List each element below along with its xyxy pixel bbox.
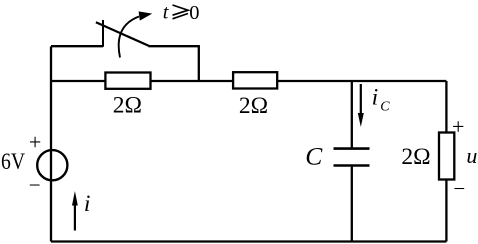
label 2 ohm under R1 [113, 93, 142, 119]
wire: right vertical top segment [445, 81, 447, 133]
svg-text:2Ω: 2Ω [113, 93, 142, 119]
label iC [372, 85, 391, 115]
switch motion arc arrow [119, 11, 153, 57]
wire: left vertical (node A column) [50, 46, 52, 241]
wire: right vertical bottom segment [445, 180, 447, 242]
svg-text:2Ω: 2Ω [401, 144, 430, 170]
svg-text:0: 0 [189, 2, 199, 24]
wire: capacitor branch top stub [351, 81, 353, 148]
label - (source polarity) [29, 173, 41, 197]
svg-text:+: + [29, 129, 41, 154]
svg-text:C: C [380, 100, 390, 115]
wire: main top wire, R1 to R2 [151, 80, 234, 82]
switch S blade [96, 22, 150, 46]
label + (u polarity) [452, 114, 464, 139]
label - (u polarity) [453, 177, 465, 201]
capacitor C top plate [334, 147, 370, 150]
label C [305, 142, 323, 171]
label 2 ohm under R2 [239, 93, 268, 119]
voltage source V1 (6V) circle [37, 150, 67, 180]
svg-text:u: u [466, 143, 477, 168]
svg-text:−: − [29, 173, 41, 197]
label i [84, 191, 91, 217]
svg-text:−: − [453, 177, 465, 201]
svg-text:i: i [84, 191, 91, 217]
wire: capacitor branch bottom stub [351, 167, 353, 242]
label u [466, 143, 477, 168]
wire: switch branch left horizontal [51, 45, 103, 47]
label + (source polarity) [29, 129, 41, 154]
svg-text:2Ω: 2Ω [239, 93, 268, 119]
svg-text:6V: 6V [1, 149, 25, 175]
switch S fixed contact tick [102, 20, 104, 47]
resistor R3 (2 ohm load) [439, 133, 454, 180]
current arrow iC [358, 84, 364, 127]
wire: main top wire, R2 to top-right corner [277, 80, 446, 82]
label 2 ohm left of R3 [401, 144, 430, 170]
resistor R1 (2 ohm, shorted by switch) [105, 73, 150, 89]
label 6V [1, 149, 25, 175]
svg-text:i: i [372, 85, 379, 111]
capacitor C bottom plate [334, 164, 370, 167]
svg-text:C: C [305, 142, 323, 171]
svg-text:+: + [452, 114, 464, 139]
current arrow i [72, 191, 78, 231]
wire: bottom return wire [51, 240, 446, 242]
wire: switch branch vertical drop to main wire [198, 46, 200, 81]
resistor R2 (2 ohm series) [233, 72, 277, 88]
wire: main top wire, source to R1 [51, 80, 106, 82]
label t>=0 [163, 2, 200, 24]
wire: switch branch right horizontal [149, 45, 200, 47]
